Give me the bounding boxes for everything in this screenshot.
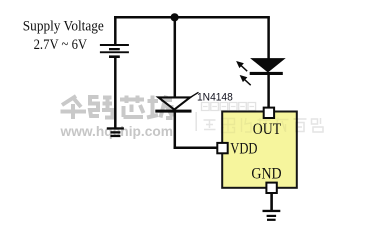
battery B1 (Supply Voltage) bbox=[100, 44, 129, 58]
wire top horizontal bus bbox=[114, 16, 270, 19]
ground (battery) bbox=[107, 127, 124, 137]
value label 2.7V ~ 6V bbox=[34, 37, 88, 53]
wire to VDD pin bbox=[174, 146, 218, 149]
diode D1 1N4148 (outline triangle) bbox=[155, 97, 191, 112]
watermark layer bbox=[60, 96, 323, 139]
wire LED cathode to OUT pin bbox=[267, 75, 270, 109]
op-amp U1 (LED driver IC body, yellow) bbox=[222, 112, 297, 188]
LED light emission arrows bbox=[237, 62, 250, 85]
wire diode cathode down bbox=[174, 112, 177, 149]
pin label VDD bbox=[230, 140, 257, 157]
svg-text:Supply Voltage: Supply Voltage bbox=[23, 18, 104, 34]
pin GND (square pad, bottom of IC) bbox=[266, 183, 276, 193]
ground (IC GND) bbox=[263, 210, 281, 221]
wire battery negative lead bbox=[114, 58, 117, 128]
wire junction to diode anode bbox=[174, 17, 177, 97]
LED D2 (filled triangle) bbox=[250, 59, 285, 75]
leader line to 1N4148 label bbox=[189, 92, 199, 98]
svg-text:OUT: OUT bbox=[253, 121, 282, 138]
wire battery positive lead bbox=[114, 16, 117, 45]
value label 1N4148 bbox=[197, 91, 233, 103]
pin label OUT bbox=[253, 121, 282, 138]
wire GND pin to ground bbox=[270, 193, 273, 211]
pin VDD (square pad) bbox=[217, 143, 227, 153]
label Supply Voltage bbox=[23, 18, 104, 34]
svg-text:1N4148: 1N4148 bbox=[197, 91, 233, 103]
node junction on top bus bbox=[171, 13, 179, 21]
svg-text:2.7V ~ 6V: 2.7V ~ 6V bbox=[34, 37, 88, 53]
svg-text:VDD: VDD bbox=[230, 140, 257, 157]
pin OUT (square pad, top of IC) bbox=[264, 108, 274, 118]
svg-text:GND: GND bbox=[251, 165, 281, 182]
wire bus corner down to LED anode bbox=[267, 16, 270, 59]
pin label GND bbox=[251, 165, 281, 182]
